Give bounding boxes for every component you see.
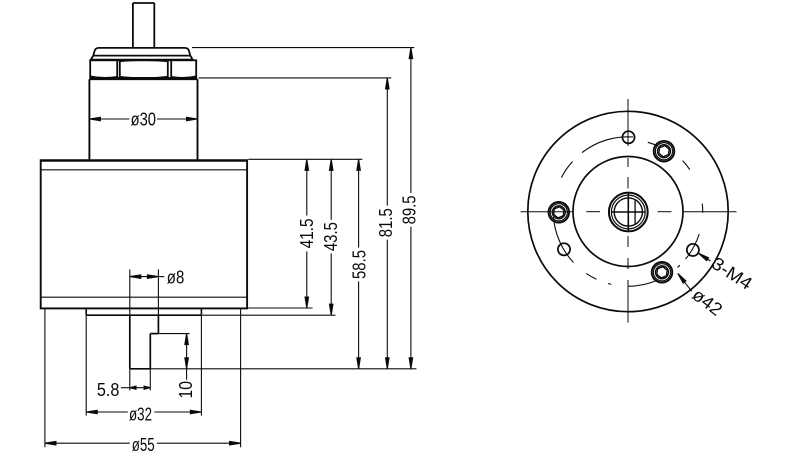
svg-text:58.5: 58.5 bbox=[349, 250, 369, 279]
vertical centerline bbox=[627, 99, 629, 323]
mounting boss (ø32) bbox=[86, 308, 201, 315]
leader ø42 bbox=[676, 272, 691, 291]
center shaft rings bbox=[609, 193, 648, 232]
output shaft with D-flat bbox=[130, 315, 159, 369]
hex socket screw S1 bbox=[654, 141, 675, 162]
dimension 81.5 bbox=[386, 78, 388, 206]
dimension ø32 with extension lines bbox=[85, 315, 87, 415]
dimension 58.5 bbox=[358, 159, 360, 247]
bolt circle dash-dot arcs bbox=[554, 137, 703, 286]
M4 hole lower-left bbox=[558, 243, 570, 255]
svg-text:41.5: 41.5 bbox=[297, 218, 317, 248]
dimension 89.5 bbox=[410, 48, 412, 193]
extension line shaft end / baseline bbox=[150, 368, 416, 370]
inner circle boss face bbox=[573, 157, 683, 267]
shaft D-flat chord bbox=[634, 200, 636, 225]
bushing cap bbox=[91, 48, 193, 60]
extension line body top bbox=[248, 158, 362, 160]
svg-text:ø32: ø32 bbox=[129, 404, 152, 424]
top shaft bbox=[133, 3, 154, 48]
extension line boss bottom bbox=[201, 314, 335, 316]
leader 3-M4 bbox=[697, 252, 710, 261]
svg-text:43.5: 43.5 bbox=[321, 222, 341, 251]
extension line cap top bbox=[192, 47, 414, 49]
gearbox neck cylinder (ø30) bbox=[89, 79, 197, 160]
svg-text:ø30: ø30 bbox=[131, 110, 156, 130]
svg-text:ø8: ø8 bbox=[167, 268, 185, 288]
svg-text:ø55: ø55 bbox=[132, 435, 155, 455]
dimension 10 bbox=[158, 333, 189, 335]
dimension 5.8 bbox=[129, 369, 131, 391]
dimension ø55 with extension lines bbox=[44, 309, 46, 447]
motor body bbox=[41, 160, 247, 308]
svg-text:10: 10 bbox=[176, 381, 196, 398]
svg-text:5.8: 5.8 bbox=[97, 380, 120, 400]
dimension ø8 with extension lines bbox=[129, 269, 131, 315]
hex socket screw S2 bbox=[549, 202, 570, 223]
shaft cross centerlines bbox=[611, 192, 645, 231]
horizontal centerline bbox=[521, 211, 737, 213]
svg-text:89.5: 89.5 bbox=[400, 195, 420, 224]
M4 hole top bbox=[622, 131, 634, 143]
outer circle ø55 flange bbox=[528, 111, 728, 311]
extension line body bottom bbox=[248, 307, 313, 309]
hex nut bbox=[90, 60, 196, 78]
svg-text:81.5: 81.5 bbox=[376, 208, 396, 237]
M4 hole right bbox=[687, 244, 699, 256]
extension line cylinder top bbox=[199, 77, 392, 79]
dimension 41.5 bbox=[306, 159, 308, 215]
dimension 43.5 bbox=[330, 159, 332, 220]
dimension ø30 bbox=[89, 118, 129, 120]
hex socket screw S3 bbox=[652, 262, 673, 283]
